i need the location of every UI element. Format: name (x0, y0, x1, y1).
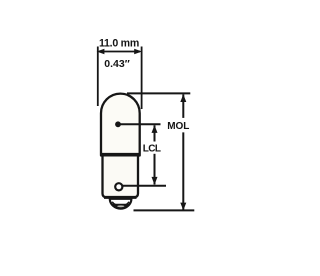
svg-text:MOL: MOL (167, 121, 189, 132)
LCL dimension line lower segment (154, 154, 156, 185)
LCL down arrow (152, 177, 158, 185)
width arrow right (134, 49, 142, 55)
filament leader line (118, 123, 161, 125)
left extension line (97, 47, 99, 107)
MOL top extension line (127, 92, 190, 94)
MOL up arrow (180, 94, 186, 102)
LCL dimension line upper segment (154, 125, 156, 141)
MOL dimension line lower segment (182, 132, 184, 209)
bottom contact dark tip (112, 204, 130, 208)
base bottom edge (thick) (104, 196, 137, 199)
lamp glass envelope (T-shape tube with dome top) (101, 94, 140, 156)
MOL down arrow (180, 203, 186, 211)
LCL up arrow (152, 125, 158, 133)
bottom contact inner arc (112, 202, 129, 206)
glass/base seam line (101, 153, 140, 155)
width dimension line (99, 51, 140, 53)
pin leader line (123, 185, 167, 187)
svg-text:LCL: LCL (143, 144, 161, 155)
MOL bottom extension line (134, 209, 195, 211)
bottom contact bump (110, 199, 132, 209)
width arrow left (97, 49, 105, 55)
contact tip highlight (117, 205, 124, 207)
right extension line (141, 47, 143, 110)
base (metal shell) (103, 155, 139, 197)
filament point (115, 121, 121, 127)
base pin (115, 183, 122, 190)
MOL dimension line upper segment (182, 94, 184, 118)
svg-text:0.43″: 0.43″ (104, 58, 129, 70)
svg-text:11.0 mm: 11.0 mm (99, 37, 139, 49)
